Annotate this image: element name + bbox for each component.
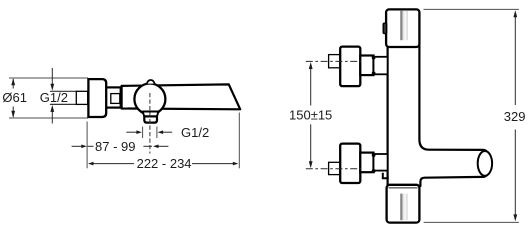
extension line from wall face — [86, 122, 88, 169]
connector nut behind body — [107, 87, 122, 107]
bottom knob — [387, 185, 420, 223]
svg-text:150±15: 150±15 — [289, 107, 332, 122]
dim 150±15 — [309, 62, 313, 168]
pip on knob top — [147, 80, 155, 84]
spout body (side) — [122, 84, 241, 109]
body silhouette with spout — [388, 45, 491, 186]
dim G1/2 outlet arrows — [126, 130, 172, 134]
wall plate (escutcheon) — [88, 79, 106, 117]
bottom union eccentric block — [340, 144, 360, 183]
outlet aerator box — [144, 116, 157, 122]
bottom knob grip highlight — [400, 194, 407, 221]
handle knob circle — [134, 84, 165, 115]
dim 329 extension line bottom — [424, 221, 519, 223]
top knob — [386, 9, 419, 47]
spout end rim ellipse — [478, 151, 492, 176]
svg-text:Ø61: Ø61 — [2, 90, 27, 105]
outlet flange under knob — [143, 112, 159, 117]
svg-text:222 - 234: 222 - 234 — [137, 156, 192, 171]
dim G1/2 outlet tick left — [142, 127, 144, 139]
G1/2 wall stub — [76, 91, 87, 104]
body step above bottom knob — [383, 173, 389, 178]
dim G1/2 extension line upper — [50, 90, 77, 92]
dim Ø61 extension line bottom — [9, 117, 88, 119]
bottom knob top seam — [389, 187, 418, 189]
svg-text:87 - 99: 87 - 99 — [95, 139, 135, 154]
connector inner square — [111, 94, 120, 104]
extension line from spout tip — [238, 113, 240, 169]
svg-text:G1/2: G1/2 — [181, 125, 209, 140]
outlet centerline (dashed) — [149, 93, 151, 154]
bottom union collar — [374, 154, 388, 171]
top union nut — [360, 56, 373, 76]
dim 87-99 — [72, 145, 169, 149]
bottom union stub G1/2 — [329, 162, 341, 174]
dim 329 dimension line + arrows — [513, 10, 517, 221]
top union collar — [374, 57, 388, 75]
svg-text:G1/2: G1/2 — [40, 90, 68, 105]
dim Ø61 dimension line + arrows — [11, 78, 15, 118]
top union stub G1/2 — [329, 55, 341, 68]
bottom union nut — [360, 153, 373, 173]
top union dashed centerline — [306, 60, 362, 62]
dim 329 extension line top — [424, 8, 519, 10]
dim Ø61 extension line top — [9, 77, 88, 79]
bottom union dashed centerline — [306, 168, 362, 170]
top knob safety button — [383, 23, 386, 33]
svg-text:329: 329 — [504, 109, 526, 124]
dim G1/2 arrows — [50, 68, 54, 124]
dim G1/2 extension line lower — [50, 103, 77, 105]
dim G1/2 outlet tick right — [156, 127, 158, 139]
dim 222-234 — [88, 162, 238, 166]
top union eccentric block — [340, 47, 360, 87]
top knob grip highlight — [400, 11, 407, 40]
nut joint blobs — [372, 56, 376, 173]
